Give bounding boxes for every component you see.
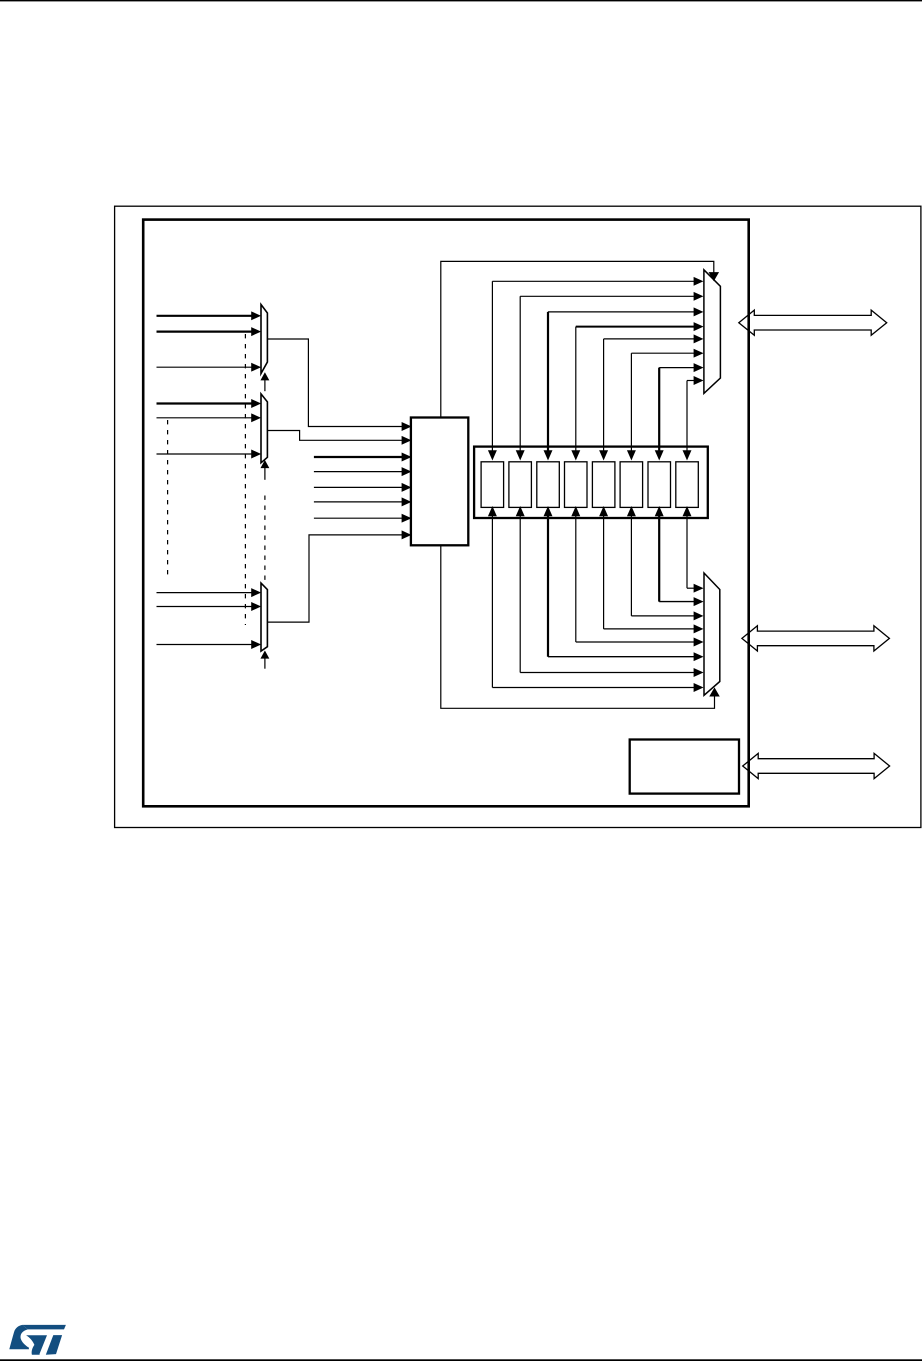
register R7 bbox=[648, 462, 671, 508]
wire: register R2 top riser to mux M4 input 2 bbox=[517, 293, 703, 460]
bus arrow: top bidirectional I/O bbox=[739, 310, 887, 335]
bus arrow: bottom bidirectional I/O bbox=[743, 753, 890, 778]
wire: control block input 7 bbox=[314, 515, 410, 522]
ST Microelectronics logo bbox=[9, 1325, 66, 1355]
wire: input 1 to mux M2 bbox=[157, 400, 260, 407]
wire: input 3 to mux M3 bbox=[157, 641, 260, 648]
wire: mux M3 output to control block input 8 bbox=[267, 531, 410, 622]
multiplexer M4 (top right) bbox=[704, 270, 721, 394]
wire: register R4 bottom drop to mux M5 input 5 bbox=[572, 507, 702, 645]
wire: register R4 top riser to mux M4 input 4 bbox=[572, 323, 702, 459]
bottom page rule bbox=[0, 1359, 922, 1361]
outer figure frame bbox=[115, 206, 921, 827]
inner diagram frame bbox=[143, 220, 749, 807]
dashed wire: select continuation at x=265 bbox=[264, 496, 266, 582]
register R8 bbox=[676, 462, 699, 508]
dashed wire: port continuation at x=245 bbox=[244, 334, 246, 625]
wire: register R2 bottom drop to mux M5 input 7 bbox=[517, 507, 703, 676]
dashed wire: port continuation at x=167 bbox=[167, 420, 169, 576]
wire: register R1 top riser to mux M4 input 1 bbox=[489, 278, 703, 460]
wire: register R8 top riser to mux M4 input 8 bbox=[683, 377, 702, 459]
wire: input 1 to mux M1 bbox=[157, 312, 260, 319]
wire: register R5 bottom drop to mux M5 input 4 bbox=[600, 507, 702, 632]
wire: input 2 to mux M3 bbox=[157, 603, 260, 610]
register R3 bbox=[537, 462, 560, 508]
wire: register R6 top riser to mux M4 input 6 bbox=[628, 350, 703, 460]
bus arrow: middle bidirectional I/O bbox=[742, 626, 890, 651]
multiplexer M1 bbox=[261, 305, 267, 374]
wire: control block top to mux M4 select bbox=[441, 261, 718, 417]
interface block U2 (bottom right) bbox=[630, 740, 739, 794]
wire: register R8 bottom drop to mux M5 input 1 bbox=[683, 507, 702, 592]
wire: register R5 top riser to mux M4 input 5 bbox=[600, 335, 702, 459]
top page rule bbox=[0, 0, 922, 1]
control logic block U1 bbox=[411, 418, 468, 546]
register R6 bbox=[620, 462, 643, 508]
register R1 bbox=[481, 462, 504, 508]
wire: input 3 to mux M1 bbox=[157, 364, 260, 371]
wire: register R3 top riser to mux M4 input 3 bbox=[544, 308, 702, 459]
wire: control block input 3 bbox=[314, 453, 410, 460]
wire: control block input 6 bbox=[314, 498, 410, 505]
wire: register R7 bottom drop to mux M5 input 2 bbox=[656, 507, 703, 605]
wire: mux M1 output to control block input 1 bbox=[267, 339, 410, 430]
wire: input 1 to mux M3 bbox=[157, 589, 260, 596]
wire: register R3 bottom drop to mux M5 input 6 bbox=[544, 507, 702, 660]
wire: register R7 top riser to mux M4 input 7 bbox=[656, 364, 703, 459]
wire: select control into mux M1 bbox=[261, 373, 268, 391]
wire: input 2 to mux M2 bbox=[157, 414, 260, 421]
register bank container bbox=[474, 447, 708, 518]
wire: control block bottom to mux M5 select bbox=[441, 545, 719, 708]
wire: register R1 bottom drop to mux M5 input 8 bbox=[489, 507, 703, 691]
wire: select control into mux M2 bbox=[261, 461, 268, 480]
register R2 bbox=[509, 462, 532, 508]
wire: control block input 5 bbox=[314, 484, 410, 491]
register R4 bbox=[565, 462, 588, 508]
wire: input 2 to mux M1 bbox=[157, 328, 260, 335]
wire: select control into mux M3 bbox=[261, 652, 268, 669]
wire: control block input 4 bbox=[314, 468, 410, 475]
multiplexer M5 (bottom right) bbox=[704, 573, 720, 695]
wire: register R6 bottom drop to mux M5 input 3 bbox=[628, 507, 703, 619]
multiplexer M3 bbox=[261, 583, 267, 651]
wire: mux M2 output to control block input 2 bbox=[267, 431, 410, 445]
multiplexer M2 bbox=[261, 394, 267, 463]
wire: input 3 to mux M2 bbox=[157, 450, 260, 457]
register R5 bbox=[592, 462, 615, 508]
